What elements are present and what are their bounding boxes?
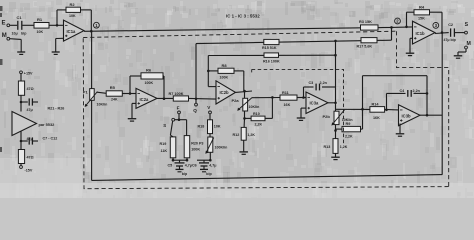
svg-text:IC2a: IC2a (140, 97, 150, 102)
svg-text:R13: R13 (324, 145, 331, 149)
svg-text:C2: C2 (448, 23, 453, 27)
svg-text:2,2K: 2,2K (255, 122, 263, 126)
svg-text:P2b: P2b (323, 114, 331, 119)
svg-text:+15V: +15V (24, 71, 33, 75)
svg-text:C6: C6 (192, 164, 197, 168)
svg-text:F: F (177, 105, 180, 110)
svg-text:par 5532: par 5532 (39, 122, 56, 127)
svg-text:2,2n: 2,2n (413, 89, 421, 93)
svg-text:4,7μ: 4,7μ (209, 164, 216, 168)
svg-text:-15V: -15V (25, 169, 33, 173)
svg-text:1,2K: 1,2K (340, 145, 348, 149)
svg-text:2,2K: 2,2K (345, 134, 353, 138)
svg-text:10Klin: 10Klin (249, 105, 260, 109)
svg-text:10Klin: 10Klin (97, 103, 108, 107)
svg-text:R20 P3: R20 P3 (191, 141, 203, 145)
svg-text:S: S (163, 123, 166, 128)
svg-text:E: E (2, 21, 6, 27)
svg-text:16K: 16K (373, 116, 380, 120)
svg-text:R18: R18 (198, 124, 205, 128)
svg-text:R9: R9 (346, 122, 351, 126)
svg-text:bip: bip (206, 172, 212, 176)
svg-text:IC1b: IC1b (416, 31, 426, 36)
svg-text:100Klin: 100Klin (215, 146, 228, 150)
svg-text:R14: R14 (372, 103, 380, 107)
svg-text:IC3b: IC3b (402, 113, 412, 118)
svg-text:R11: R11 (282, 91, 289, 95)
svg-text:R8: R8 (222, 63, 228, 68)
svg-text:100K: 100K (191, 148, 200, 152)
svg-text:IC1a: IC1a (67, 29, 77, 34)
svg-text:R7 100K: R7 100K (169, 92, 184, 96)
svg-text:P2a: P2a (232, 98, 240, 103)
svg-text:bip: bip (21, 32, 27, 36)
svg-text:S: S (465, 22, 469, 28)
svg-text:R19: R19 (160, 142, 167, 146)
svg-text:100K: 100K (145, 81, 154, 85)
svg-text:2,2n: 2,2n (320, 81, 328, 85)
svg-text:C3: C3 (309, 81, 314, 85)
svg-text:R5: R5 (110, 85, 116, 90)
svg-text:16K: 16K (284, 103, 291, 107)
svg-text:47μ: 47μ (27, 108, 33, 112)
svg-text:C1: C1 (17, 15, 23, 20)
svg-text:47Ω: 47Ω (27, 87, 34, 91)
svg-text:100K: 100K (220, 76, 229, 80)
svg-text:1,2K: 1,2K (247, 133, 255, 137)
svg-text:IC2b: IC2b (220, 90, 230, 95)
svg-text:R2: R2 (70, 2, 76, 7)
svg-text:10K: 10K (69, 14, 76, 18)
svg-text:47Ω: 47Ω (27, 156, 34, 160)
svg-text:C5: C5 (168, 164, 173, 168)
svg-text:Q: Q (193, 108, 197, 113)
svg-text:10K: 10K (37, 30, 44, 34)
svg-text:R12: R12 (233, 133, 240, 137)
svg-text:10K: 10K (214, 124, 221, 128)
svg-text:4,7μ: 4,7μ (185, 164, 192, 168)
svg-text:R16 100K: R16 100K (263, 59, 280, 63)
svg-text:R1: R1 (37, 17, 43, 22)
svg-text:M: M (2, 33, 7, 39)
svg-text:R17 5,6K: R17 5,6K (357, 44, 373, 48)
svg-text:11K: 11K (161, 149, 168, 153)
svg-text:R6: R6 (146, 68, 152, 73)
svg-text:24K: 24K (111, 98, 118, 102)
svg-text:bip: bip (182, 172, 188, 176)
svg-text:R3 15K: R3 15K (359, 20, 372, 24)
svg-text:47μ bip: 47μ bip (444, 38, 456, 42)
svg-text:IC3a: IC3a (310, 101, 320, 106)
svg-text:R4: R4 (419, 5, 425, 10)
svg-text:C7 - C12: C7 - C12 (43, 136, 58, 140)
svg-text:R15 51K: R15 51K (262, 46, 277, 50)
svg-text:IC 1 - IC 3 : 5532: IC 1 - IC 3 : 5532 (226, 14, 260, 19)
svg-text:R21 - R26: R21 - R26 (48, 107, 65, 111)
svg-text:10μ: 10μ (12, 32, 18, 36)
svg-text:47μ: 47μ (27, 137, 33, 141)
svg-text:R10: R10 (253, 112, 260, 116)
svg-text:15K: 15K (418, 17, 425, 21)
